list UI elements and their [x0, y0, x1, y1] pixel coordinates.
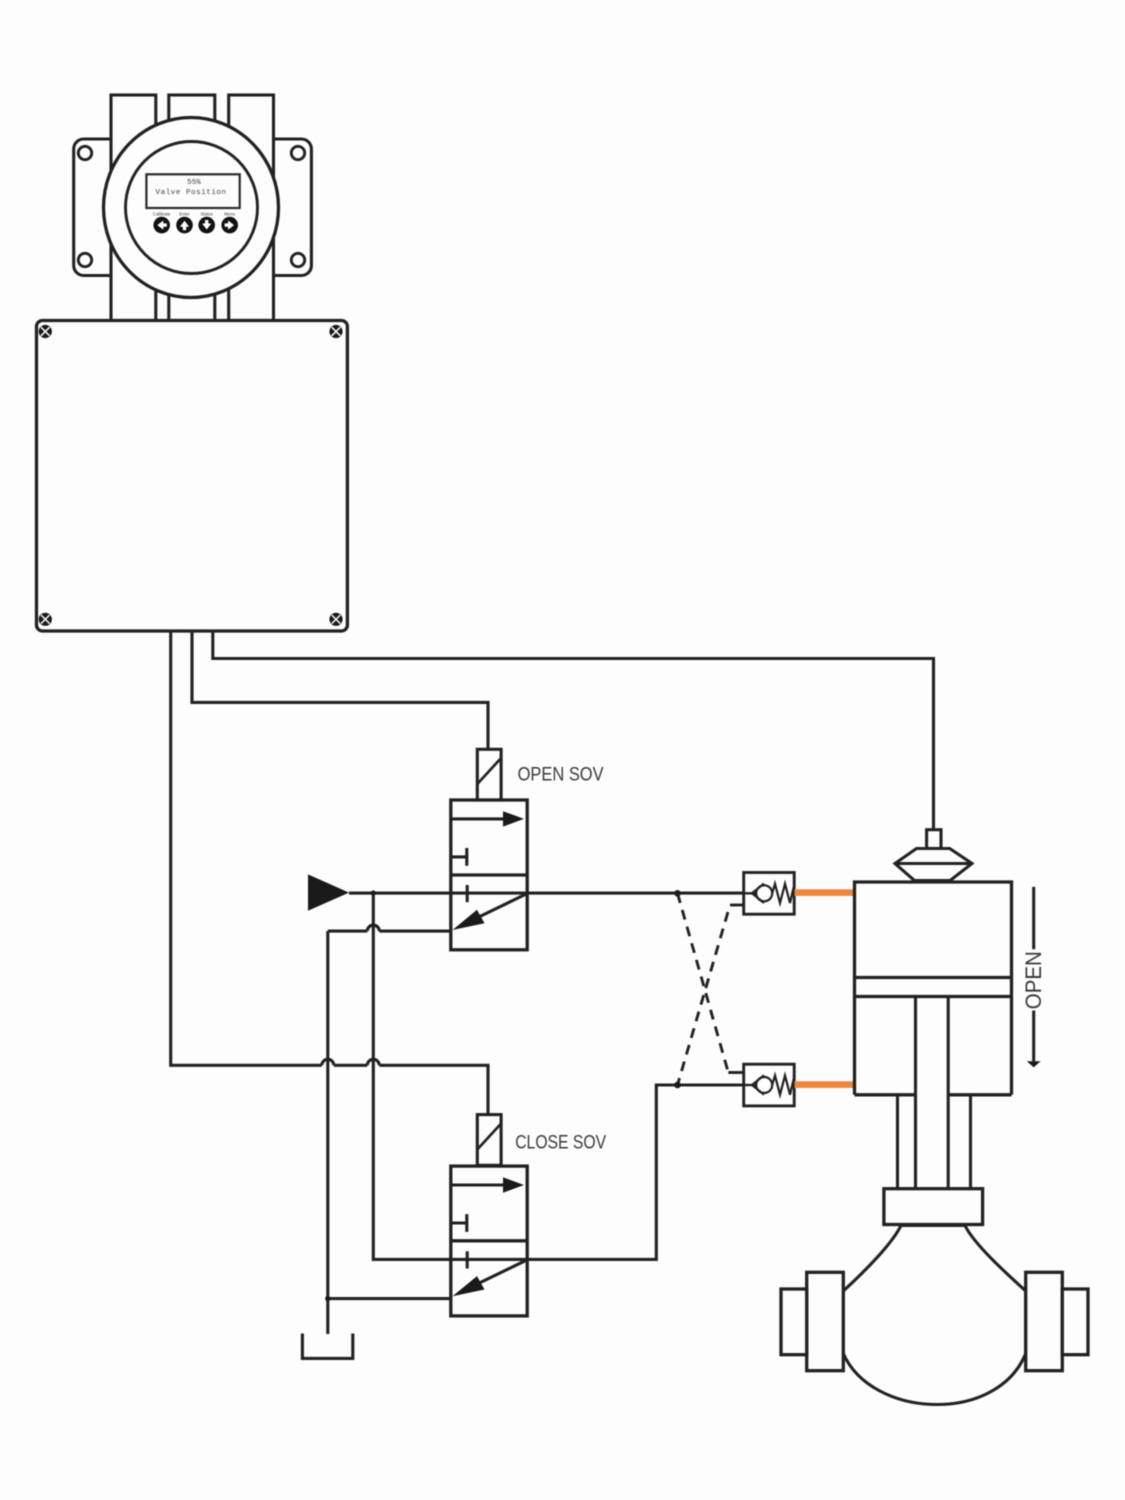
- conduit stub top-left: [111, 95, 156, 210]
- yoke legs: [898, 1095, 971, 1189]
- dashed cross line A: [678, 893, 729, 1072]
- screw bottom-right: [329, 613, 342, 626]
- node on supply line: [674, 890, 681, 897]
- supply riser down to close SOV: [373, 893, 451, 1259]
- junction box: [37, 321, 348, 632]
- OPEN direction arrow lower segment: [1032, 1011, 1035, 1062]
- LCD display: [146, 174, 239, 208]
- bolt hole top-left: [78, 146, 91, 159]
- solenoid coil CLOSE SOV: [477, 1115, 501, 1166]
- OPEN SOV state divider: [451, 873, 527, 876]
- actuator stem connector: [927, 830, 941, 849]
- bolt hole bottom-right: [291, 253, 304, 266]
- valve body OPEN SOV: [451, 800, 527, 950]
- actuator stem rod: [916, 997, 949, 1189]
- CLOSE SOV top blocked port: [451, 1214, 467, 1232]
- svg-text:Status: Status: [200, 212, 213, 217]
- button up-arrow: [176, 217, 193, 234]
- wire hop over vent riser: [322, 1059, 334, 1065]
- wire to open solenoid: [192, 631, 488, 749]
- positioner inner face circle: [126, 142, 258, 274]
- OPEN direction arrowhead: [1027, 1061, 1041, 1067]
- wire hop over supply riser: [367, 1059, 379, 1065]
- bolt hole bottom-left: [78, 253, 91, 266]
- OPEN SOV vent line with hop: [328, 930, 451, 933]
- positioner mounting plate: [74, 139, 312, 276]
- orange tube lower: [795, 1081, 855, 1088]
- CLOSE SOV top flow arrow: [451, 1177, 524, 1192]
- dashed cross line B: [678, 905, 731, 1085]
- pipe end left: [781, 1289, 807, 1355]
- conduit stub top-right: [229, 95, 274, 210]
- svg-text:OPEN SOV: OPEN SOV: [518, 764, 604, 786]
- actuator cylinder: [855, 882, 1012, 1095]
- node on close line: [674, 1082, 681, 1089]
- pipe flange right: [1026, 1272, 1063, 1370]
- actuator dome hexagon: [895, 849, 972, 881]
- valve body: [843, 1226, 1025, 1405]
- button left-arrow: [153, 217, 170, 234]
- vent riser: [326, 931, 329, 1334]
- node supply junction: [371, 890, 376, 895]
- solenoid coil OPEN SOV: [477, 749, 501, 800]
- conduit stub top-middle: [169, 95, 215, 210]
- svg-text:CLOSE SOV: CLOSE SOV: [515, 1132, 606, 1154]
- svg-text:Menu: Menu: [224, 212, 236, 217]
- svg-text:Valve Position: Valve Position: [156, 189, 226, 197]
- wire to actuator stem: [213, 631, 934, 830]
- supply line to open SOV and on to check valve: [349, 892, 756, 895]
- screw bottom-left: [39, 613, 52, 626]
- CLOSE SOV state divider: [451, 1239, 527, 1242]
- node vent junction: [325, 1296, 330, 1301]
- CLOSE SOV supply through line: [451, 1258, 527, 1261]
- OPEN SOV exhaust diagonal: [453, 894, 528, 931]
- svg-text:Enter: Enter: [179, 212, 190, 217]
- bonnet flange: [884, 1189, 983, 1225]
- conduit stub bottom-right: [229, 210, 274, 321]
- conduit stub bottom-middle: [169, 210, 215, 321]
- OPEN SOV bottom blocked port tick: [466, 885, 469, 902]
- vent line hop: [367, 925, 379, 931]
- pipe end right: [1062, 1289, 1088, 1355]
- positioner outer housing circle: [104, 118, 279, 298]
- check valve upper: [730, 873, 794, 915]
- orange tube upper: [795, 889, 855, 896]
- valve body CLOSE SOV: [451, 1166, 527, 1316]
- bolt hole top-right: [291, 146, 304, 159]
- check valve lower: [728, 1064, 794, 1106]
- OPEN direction arrow upper segment: [1032, 887, 1035, 949]
- pipe flange left: [807, 1272, 844, 1370]
- conduit stub bottom-left: [111, 210, 156, 321]
- CLOSE SOV output line to lower check valve: [527, 1085, 744, 1259]
- CLOSE SOV exhaust diagonal: [453, 1260, 528, 1297]
- button down-arrow: [198, 217, 215, 234]
- screw top-right: [329, 325, 342, 338]
- CLOSE SOV bottom blocked port tick: [466, 1251, 469, 1268]
- air supply triangle: [308, 874, 349, 910]
- button right-arrow: [221, 217, 238, 234]
- exhaust bracket: [302, 1334, 352, 1359]
- CLOSE SOV vent line: [328, 1297, 451, 1300]
- screw top-left: [39, 325, 52, 338]
- svg-text:55%: 55%: [187, 179, 201, 187]
- OPEN SOV top flow arrow: [451, 811, 524, 826]
- svg-text:Calibrate: Calibrate: [153, 212, 171, 217]
- OPEN SOV top blocked port: [451, 848, 467, 866]
- wire to close solenoid (left drop, long horizontal with hops, down to coil): [171, 631, 488, 1115]
- svg-text:OPEN: OPEN: [1021, 951, 1046, 1009]
